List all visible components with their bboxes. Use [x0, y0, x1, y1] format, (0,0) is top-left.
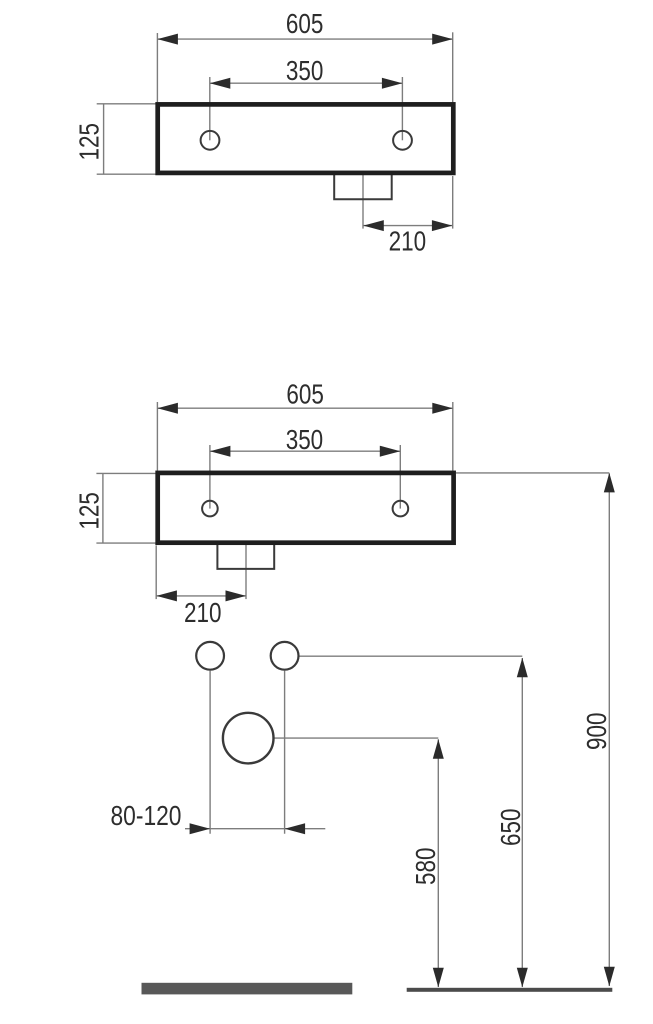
svg-text:350: 350: [286, 55, 324, 86]
svg-text:580: 580: [410, 847, 441, 885]
svg-text:80-120: 80-120: [111, 800, 182, 831]
svg-text:210: 210: [389, 225, 427, 256]
svg-text:605: 605: [286, 8, 324, 39]
svg-text:125: 125: [74, 492, 105, 530]
svg-text:210: 210: [184, 597, 222, 628]
svg-text:125: 125: [74, 123, 105, 161]
svg-text:605: 605: [286, 378, 324, 409]
svg-text:350: 350: [286, 424, 324, 455]
svg-text:650: 650: [495, 809, 526, 847]
svg-text:900: 900: [581, 712, 612, 750]
